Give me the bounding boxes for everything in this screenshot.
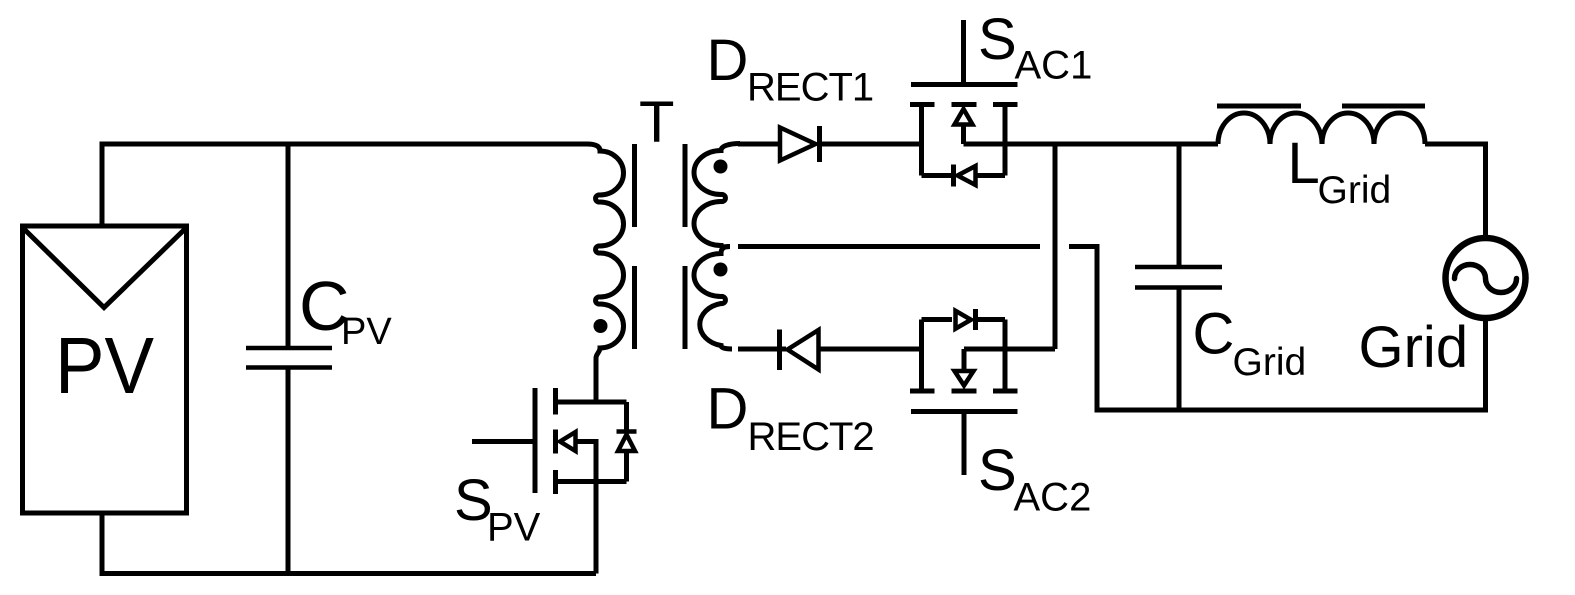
secondary 1 phase dot bbox=[714, 160, 728, 174]
label C_PV bbox=[299, 267, 392, 353]
svg-text:Grid: Grid bbox=[1359, 315, 1469, 380]
wire S_AC2 to node bbox=[964, 347, 1055, 352]
body diode of S_PV bbox=[617, 402, 637, 482]
capacitor C_Grid bbox=[1135, 144, 1222, 410]
wire PV top to transformer bbox=[102, 144, 587, 226]
body diode of S_AC1 bbox=[922, 165, 1006, 187]
svg-text:RECT1: RECT1 bbox=[747, 66, 873, 110]
transformer secondary winding 2 bbox=[694, 247, 732, 350]
transformer T primary winding bbox=[587, 144, 624, 402]
svg-text:T: T bbox=[639, 90, 674, 155]
label D_RECT1 bbox=[707, 28, 874, 110]
svg-text:PV: PV bbox=[55, 321, 155, 410]
label S_AC2 bbox=[978, 438, 1091, 520]
svg-text:Grid: Grid bbox=[1233, 341, 1307, 384]
svg-text:S: S bbox=[978, 7, 1017, 72]
svg-text:L: L bbox=[1288, 131, 1320, 196]
label S_PV bbox=[454, 468, 541, 550]
body diode of S_AC2 bbox=[922, 309, 1006, 330]
wire secondary 1 to D_RECT1 bbox=[738, 142, 781, 147]
svg-text:C: C bbox=[1193, 302, 1235, 367]
wire secondary 2 to D_RECT2 bbox=[738, 347, 786, 352]
wire secondary center tap bbox=[738, 244, 1040, 249]
svg-text:RECT2: RECT2 bbox=[748, 415, 874, 459]
svg-text:D: D bbox=[707, 28, 749, 93]
label L_Grid bbox=[1288, 131, 1392, 212]
svg-text:AC1: AC1 bbox=[1015, 44, 1093, 88]
diode D_RECT1 bbox=[780, 126, 820, 162]
MOSFET S_PV bbox=[472, 388, 627, 574]
label D_RECT2 bbox=[707, 377, 874, 460]
MOSFET S_AC2 bbox=[910, 320, 1018, 476]
wire L_Grid to grid source bbox=[1425, 144, 1486, 238]
capacitor C_PV bbox=[246, 144, 332, 574]
label S_AC1 bbox=[978, 7, 1092, 88]
diode D_RECT2 bbox=[780, 330, 819, 371]
inductor L_Grid bbox=[1217, 106, 1425, 144]
MOSFET S_AC1 bbox=[910, 20, 1018, 176]
label C_Grid bbox=[1193, 302, 1307, 385]
wire D_RECT1 to S_AC1 bbox=[820, 142, 922, 147]
svg-text:PV: PV bbox=[487, 506, 541, 550]
AC source Grid bbox=[1446, 238, 1526, 318]
transformer core bbox=[635, 144, 686, 349]
primary phase dot bbox=[594, 319, 608, 333]
secondary 2 phase dot bbox=[714, 263, 728, 277]
wire D_RECT2 to S_AC2 bbox=[818, 347, 922, 352]
PV panel PV bbox=[23, 226, 187, 513]
wire PV bottom rail bbox=[102, 513, 596, 574]
svg-text:D: D bbox=[707, 377, 749, 442]
svg-text:Grid: Grid bbox=[1318, 169, 1392, 212]
svg-text:PV: PV bbox=[341, 311, 392, 353]
svg-text:AC2: AC2 bbox=[1014, 476, 1092, 520]
svg-text:S: S bbox=[978, 438, 1017, 503]
wire S_AC1 to output node bbox=[964, 142, 1219, 147]
transformer secondary winding 1 bbox=[694, 144, 740, 247]
wire center tap crossover to bottom rail bbox=[1069, 247, 1486, 411]
wire node to S_AC2 bbox=[1053, 144, 1058, 349]
